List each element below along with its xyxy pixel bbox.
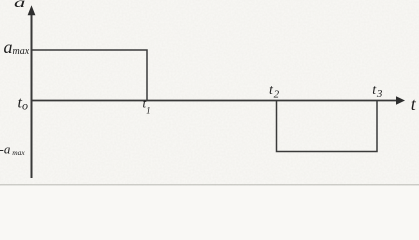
negative pulse t2-t3 at -a_max [277, 101, 378, 152]
horizontal t-axis [32, 100, 399, 102]
svg-text:a: a [14, 0, 25, 11]
t-axis arrowhead [396, 96, 405, 104]
a-axis arrowhead [28, 5, 36, 15]
positive pulse t0-t1 at a_max [32, 50, 147, 101]
label a (axis title) [14, 0, 25, 11]
vertical a-axis [31, 12, 33, 178]
bottom border [0, 184, 419, 185]
